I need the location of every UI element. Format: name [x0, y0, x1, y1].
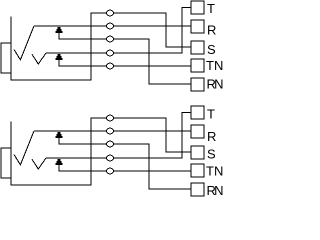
svg-text:R: R [207, 22, 216, 37]
svg-text:TN: TN [206, 58, 223, 73]
svg-text:S: S [207, 42, 216, 57]
svg-text:T: T [207, 106, 215, 121]
svg-text:R: R [207, 129, 216, 144]
svg-text:T: T [207, 1, 215, 16]
svg-text:S: S [207, 146, 216, 161]
svg-text:TN: TN [206, 163, 223, 178]
svg-text:RN: RN [207, 77, 224, 92]
svg-text:RN: RN [207, 183, 224, 198]
